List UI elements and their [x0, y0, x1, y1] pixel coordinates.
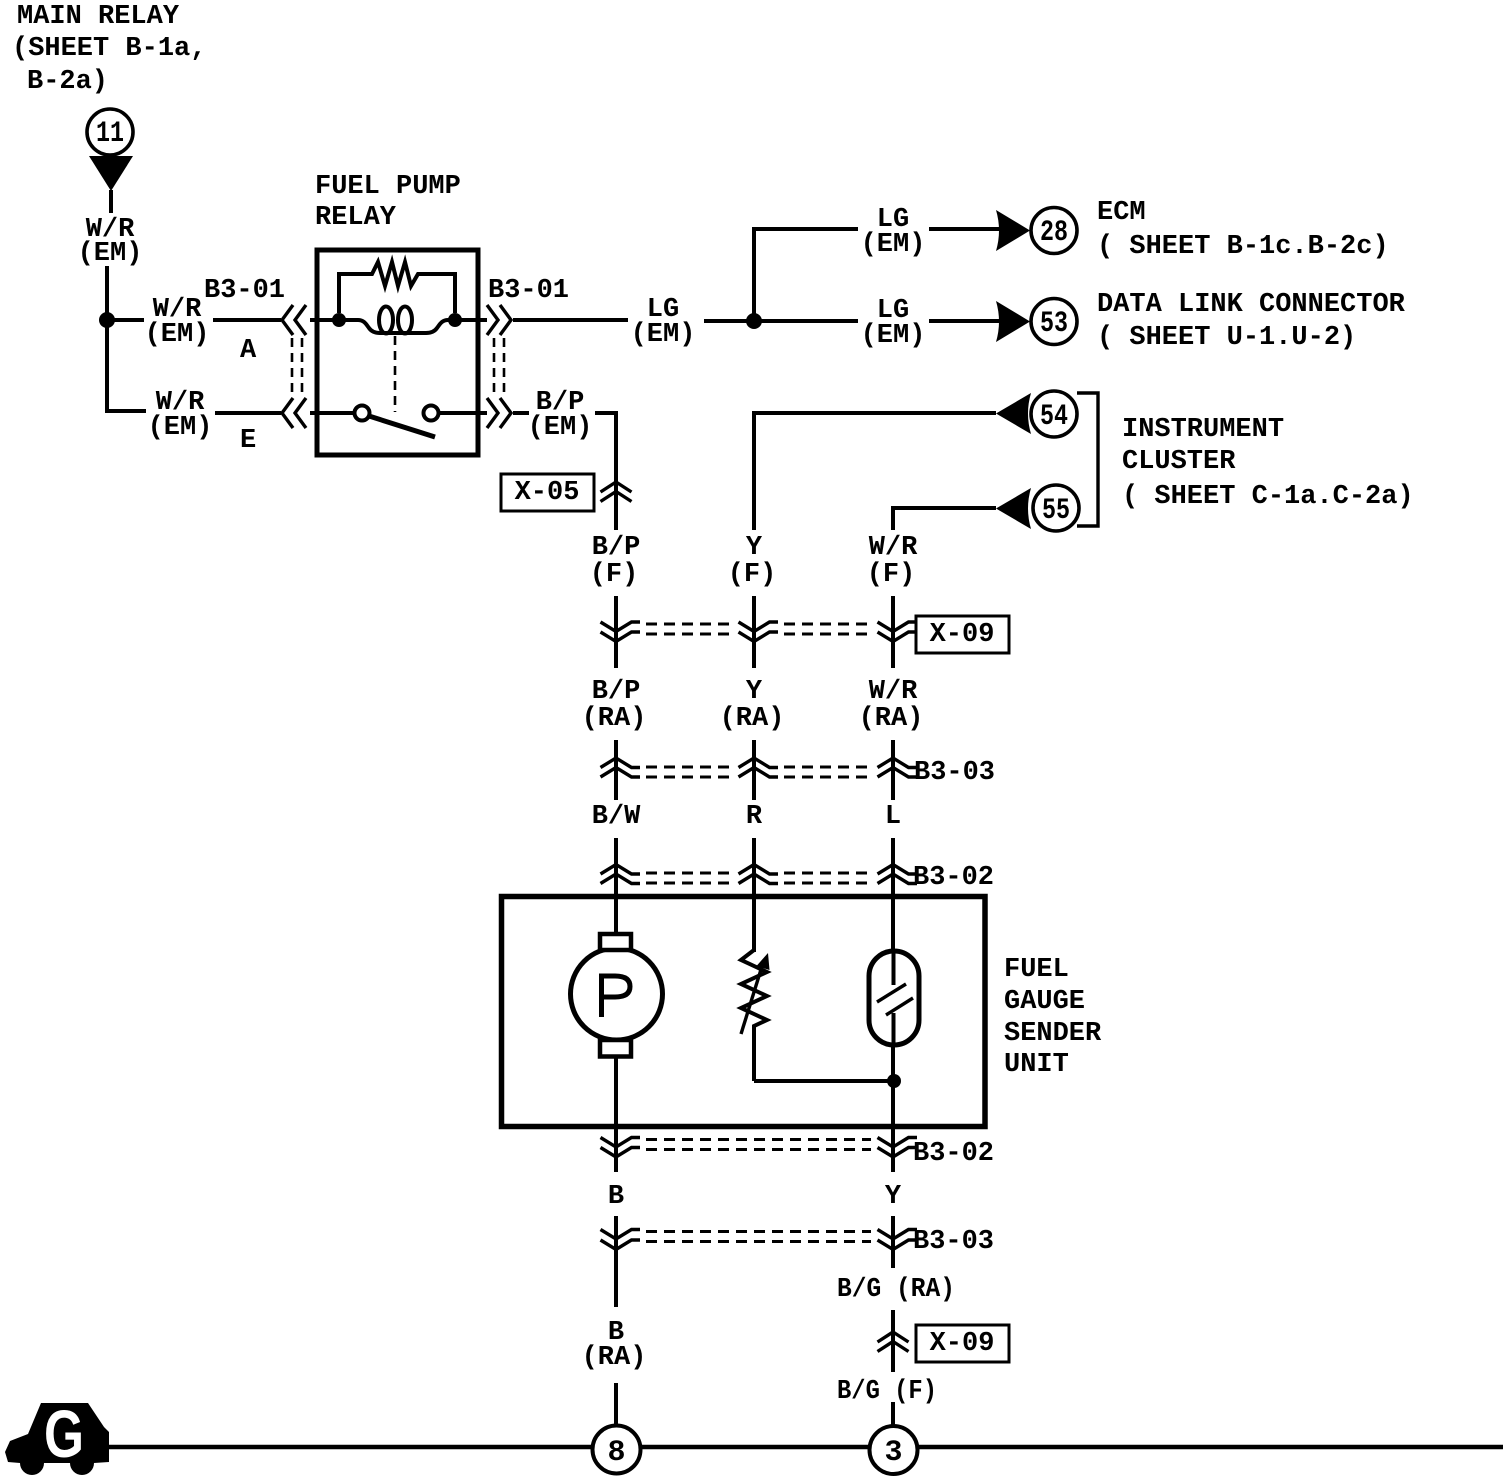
connector X-05 chevrons [601, 482, 632, 492]
svg-text:G: G [44, 1397, 84, 1472]
svg-text:MAIN RELAY: MAIN RELAY [17, 2, 180, 32]
svg-text:(EM): (EM) [631, 320, 696, 350]
svg-text:54: 54 [1040, 400, 1068, 434]
svg-text:B/P: B/P [592, 533, 641, 563]
connector X-09 chevrons column 2 [739, 622, 779, 632]
ground bus line [108, 1445, 1503, 1450]
svg-text:L: L [885, 802, 901, 832]
svg-text:B-2a): B-2a) [27, 67, 108, 97]
ground symbol car [5, 1403, 109, 1475]
connector B3-03 dashed links [646, 766, 732, 769]
node 28 circle [1031, 208, 1077, 254]
svg-text:B3-01: B3-01 [204, 276, 285, 306]
svg-text:A: A [240, 336, 257, 366]
svg-text:( SHEET B-1c.B-2c): ( SHEET B-1c.B-2c) [1097, 232, 1389, 262]
wire stub under arrow [109, 190, 113, 213]
fuel pump brush top [600, 934, 631, 950]
svg-text:B/G (F): B/G (F) [837, 1377, 937, 1407]
connector B3-01 dashed links left [291, 338, 294, 397]
fuel pump motor circle [571, 948, 663, 1040]
node 54 circle [1031, 391, 1077, 437]
sensor internals [892, 953, 896, 985]
connector B3-03 chevrons column 3 [878, 758, 918, 768]
main vertical wire from 11 [105, 266, 109, 413]
svg-text:(EM): (EM) [78, 239, 143, 269]
wires below box [614, 1127, 618, 1172]
connector B3-01 chevrons pin A [282, 305, 293, 335]
svg-text:Y: Y [885, 1182, 902, 1212]
relay coil wire out [455, 318, 487, 322]
arrow to 54 [996, 393, 1031, 434]
node 11 circle [87, 109, 133, 155]
wire B/P (EM) from relay [513, 411, 529, 415]
connector B3-01 right chevrons bottom [487, 398, 498, 428]
rheostat zigzag [741, 950, 767, 1081]
pump wire to box bottom [614, 1056, 618, 1127]
connector X-09 dashed links [646, 623, 732, 626]
svg-text:(RA): (RA) [859, 704, 924, 734]
svg-text:CLUSTER: CLUSTER [1122, 447, 1236, 477]
wire branch to DLC [754, 319, 858, 323]
wire LG (EM) [513, 318, 628, 322]
svg-text:28: 28 [1040, 216, 1068, 250]
svg-text:X-09: X-09 [930, 1329, 995, 1359]
wire to instrument cluster 54 [754, 413, 996, 530]
node 55 circle [1033, 485, 1079, 531]
rheostat arrow [741, 963, 763, 1034]
svg-text:(EM): (EM) [528, 413, 593, 443]
svg-text:W/R: W/R [869, 677, 918, 707]
relay resistor [339, 262, 455, 313]
svg-text:B/G (RA): B/G (RA) [837, 1275, 955, 1305]
junction node [99, 312, 115, 328]
relay coil [339, 320, 455, 333]
svg-text:B/P: B/P [592, 677, 641, 707]
wires between F labels and X-09 [614, 596, 618, 668]
wires down to ground nodes [614, 1383, 618, 1427]
fuel gauge sender unit box [502, 897, 986, 1127]
connector B3-01 right chevrons top [487, 305, 498, 335]
sensor wire to box bottom [891, 1045, 895, 1127]
connector B3-02 dashed links [646, 872, 732, 875]
connector B3-02 chevrons column 2 [739, 865, 779, 875]
svg-text:(RA): (RA) [720, 704, 785, 734]
relay switch contact left [355, 406, 370, 421]
svg-text:B/W: B/W [592, 802, 641, 832]
connector X-05 label box [501, 474, 594, 511]
svg-text:3: 3 [884, 1436, 902, 1470]
arrow to 53 [996, 301, 1030, 342]
svg-text:FUEL PUMP: FUEL PUMP [315, 172, 461, 202]
connector X-09 label box [916, 616, 1009, 653]
svg-text:R: R [746, 802, 763, 832]
arrow from 11 [89, 156, 133, 191]
connector B3-02 below dashed links [646, 1138, 871, 1141]
fuel pump P glyph [602, 976, 631, 1017]
relay switch wire in [310, 411, 354, 415]
svg-text:B: B [608, 1182, 624, 1212]
connector X-09 below chevrons [878, 1332, 909, 1342]
svg-text:53: 53 [1040, 307, 1068, 341]
connector X-09 chevrons column 3 [878, 622, 918, 632]
svg-text:( SHEET U-1.U-2): ( SHEET U-1.U-2) [1097, 323, 1356, 353]
svg-text:DATA LINK CONNECTOR: DATA LINK CONNECTOR [1097, 290, 1406, 320]
svg-text:B3-02: B3-02 [913, 863, 994, 893]
svg-text:Y: Y [746, 533, 763, 563]
relay coil node left [332, 313, 346, 327]
svg-text:SENDER: SENDER [1004, 1019, 1102, 1049]
fuel level sensor body [869, 951, 919, 1045]
relay coil wire in [310, 318, 340, 322]
svg-text:Y: Y [746, 677, 763, 707]
svg-text:X-09: X-09 [930, 620, 995, 650]
wire to X-09 [891, 1310, 895, 1372]
arrow to 55 [996, 488, 1031, 529]
svg-text:(EM): (EM) [148, 413, 213, 443]
relay box [317, 250, 478, 455]
svg-text:(F): (F) [867, 560, 916, 590]
node 53 circle [1031, 299, 1077, 345]
wire corner to B/P column [595, 413, 616, 530]
svg-text:(SHEET B-1a,: (SHEET B-1a, [12, 34, 206, 64]
connector B3-02 below chevrons column 2 [878, 1138, 918, 1148]
junction node LG [746, 313, 762, 329]
svg-text:W/R: W/R [869, 533, 918, 563]
svg-text:(RA): (RA) [582, 704, 647, 734]
connector B3-02 below chevrons column 1 [601, 1138, 641, 1148]
wires between B Y labels and B3-03 [614, 1216, 618, 1307]
svg-text:(EM): (EM) [861, 230, 926, 260]
connector B3-01 dashed links right [493, 338, 496, 397]
svg-text:INSTRUMENT: INSTRUMENT [1122, 415, 1284, 445]
connector B3-03 below chevrons column 1 [601, 1230, 641, 1240]
relay switch contact right [424, 406, 439, 421]
rheostat wire to junction [754, 1079, 894, 1083]
svg-text:B3-03: B3-03 [913, 1227, 994, 1257]
svg-text:X-05: X-05 [515, 478, 580, 508]
svg-text:E: E [240, 426, 256, 456]
svg-text:RELAY: RELAY [315, 203, 397, 233]
svg-text:ECM: ECM [1097, 198, 1146, 228]
svg-text:UNIT: UNIT [1004, 1050, 1069, 1080]
svg-text:11: 11 [96, 117, 124, 151]
wires into fuel gauge unit [614, 838, 618, 936]
svg-text:B3-02: B3-02 [913, 1139, 994, 1169]
connector X-09 below label box [916, 1325, 1009, 1362]
wire E row [107, 409, 146, 413]
svg-text:(EM): (EM) [145, 320, 210, 350]
connector B3-01 chevrons pin E [282, 398, 293, 428]
connector B3-02 chevrons column 3 [878, 865, 918, 875]
wires between RA labels and B3-03 [614, 740, 618, 800]
relay switch wire out [438, 411, 487, 415]
connector B3-02 chevrons column 1 [601, 865, 641, 875]
instrument cluster bracket [1077, 393, 1098, 526]
svg-text:(EM): (EM) [861, 321, 926, 351]
connector B3-03 chevrons column 1 [601, 758, 641, 768]
svg-text:8: 8 [607, 1436, 625, 1470]
connector B3-03 below dashed links [646, 1230, 871, 1233]
relay switch blade [369, 416, 435, 437]
wire to instrument cluster 55 [893, 508, 996, 530]
svg-text:FUEL: FUEL [1004, 955, 1069, 985]
wire A row [107, 318, 144, 322]
svg-text:(F): (F) [590, 560, 639, 590]
relay coil node right [448, 313, 462, 327]
arrow to 28 [996, 210, 1030, 251]
svg-text:(F): (F) [728, 560, 777, 590]
junction node sender [887, 1074, 901, 1088]
svg-text:B3-01: B3-01 [488, 276, 569, 306]
ground node 8 [593, 1426, 641, 1474]
svg-text:B3-03: B3-03 [914, 758, 995, 788]
ground node 3 [870, 1426, 918, 1474]
svg-text:(RA): (RA) [582, 1343, 647, 1373]
connector X-09 chevrons column 1 [601, 622, 641, 632]
connector B3-03 chevrons column 2 [739, 758, 779, 768]
connector B3-03 below chevrons column 2 [878, 1230, 918, 1240]
relay actuation dashed line [394, 336, 397, 412]
svg-text:GAUGE: GAUGE [1004, 987, 1085, 1017]
svg-text:( SHEET C-1a.C-2a): ( SHEET C-1a.C-2a) [1122, 482, 1414, 512]
fuel pump brush bottom [600, 1040, 631, 1057]
wire branch up to ECM [754, 229, 858, 321]
svg-text:55: 55 [1042, 494, 1070, 528]
